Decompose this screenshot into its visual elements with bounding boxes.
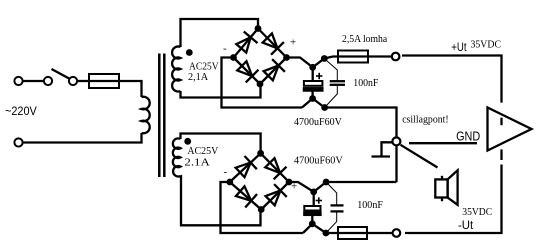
svg-text:-: - [224,166,228,178]
speaker terminal tick top [441,176,443,180]
wire [77,80,89,82]
capacitor C2 100nF leads [324,59,337,108]
capacitor C3 top plate [304,206,320,211]
svg-text:AC25V: AC25V [187,146,219,157]
transformer primary winding [142,97,150,134]
bridge rectifier B1 sides [234,29,287,85]
svg-text:GND: GND [456,128,480,143]
wire bridge2 minus to fuse bus [221,182,304,233]
diode D7 (L2 to B2) [234,184,257,207]
secondary winding 1 (top) [172,47,180,92]
capacitor C1 lead bottom [311,91,313,99]
wire [23,80,44,82]
transformer core [158,54,161,178]
junction dot bridge1 left [230,54,237,61]
svg-text:~220V: ~220V [5,106,37,118]
junction dot 100nF branch top [321,55,328,62]
diode D1 (L1 to T1) [234,31,257,54]
amp power rail dash below [500,149,502,160]
junction dot C1 bottom [309,95,316,102]
wire bottom to primary [23,133,142,143]
fuse F2 [338,51,368,63]
svg-text:2,5A lomha: 2,5A lomha [342,34,388,45]
junction dot bridge2 top [257,150,264,157]
wire secondary2 top to bridge2 AC top [181,134,261,154]
capacitor C3 bottom plate [304,213,320,215]
wire secondary2 bottom to bridge2 AC bottom [181,176,261,225]
capacitor C1 top plate [304,81,323,86]
capacitor C3 plus sign [316,197,322,203]
svg-text:4700uF60V: 4700uF60V [294,117,343,128]
bridge rectifier B2 sides [230,153,289,209]
diode D8 (B2 to R2) [264,184,287,207]
switch S1 blade [52,69,71,79]
diode D3 (L1 to B1) [235,59,258,82]
wire bridge2 plus to star [289,182,397,192]
wire to transformer primary [119,81,142,97]
svg-text:AC25V: AC25V [189,62,219,73]
input terminal circle top [14,77,22,85]
svg-text:+: + [291,181,297,193]
junction dot C3 top [310,189,317,196]
svg-text:-Ut: -Ut [458,218,474,232]
diode D5 (L2 to T2) [234,156,257,179]
svg-text:100nF: 100nF [353,78,379,89]
junction dot bus 100nF bottom [321,104,328,111]
svg-text:+Ut: +Ut [451,40,467,54]
capacitor C4 plates [331,204,344,206]
capacitor C3 lead bottom [311,215,313,224]
wire secondary1 bottom to bridge1 AC bottom [181,84,261,98]
terminal circle +Ut [392,53,400,61]
amp power rail dash inside [500,118,502,126]
wire secondary1 top to bridge1 AC top [181,19,259,47]
junction dot C1 top [309,64,316,71]
svg-text:35VDC: 35VDC [462,207,492,218]
wire fuse3 to -Ut terminal [367,232,393,234]
junction dot C3 bottom [309,220,316,227]
svg-text:2.1A: 2.1A [184,158,210,169]
capacitor C1 bottom plate [304,88,323,90]
star point vertical from circle to lower bus [395,146,397,182]
phase dot secondary 2 [184,138,191,145]
secondary winding 2 (bottom) [173,138,181,176]
capacitor C4 100nF leads [326,182,337,233]
svg-text:+: + [290,37,296,49]
speaker box [435,179,447,197]
wire +Ut rail [402,56,502,103]
junction dot bridge1 right [283,54,290,61]
phase dot secondary 1 [186,49,193,56]
fuse F1 [89,74,119,88]
svg-text:4700uF60V: 4700uF60V [294,156,343,167]
capacitor C1 plus sign [316,73,322,79]
wire bridge1 plus towards fuse [287,57,339,68]
svg-text:35VDC: 35VDC [471,39,502,50]
terminal circle -Ut [393,229,401,237]
wire star to speaker [401,145,438,168]
switch pole circle [44,77,52,85]
svg-text:100nF: 100nF [357,200,383,211]
junction dot bridge2 right [286,179,293,186]
junction dot bridge1 bottom [257,81,264,88]
capacitor C3 4700uF lead top [313,192,315,206]
speaker horn [448,170,458,205]
diode D6 (T2 to R2) [263,156,286,179]
junction dot bridge2 left [226,179,233,186]
switch pole circle right [69,77,77,85]
chassis ground symbol [382,142,393,156]
junction dot bus2 100nF bottom [323,230,330,237]
fuse F3 [338,227,367,239]
star point circle [392,137,400,145]
wire fuse to +Ut terminal [368,55,392,57]
GND wire [409,142,477,144]
amplifier U1 triangle [488,108,532,151]
wire -Ut rail [405,165,502,234]
diode D2 (T1 to R1) [261,32,284,55]
diode D4 (B1 to R1) [262,59,285,82]
junction dot 100nF branch bottom section [323,179,330,186]
wire bridge1 minus to star bus [222,58,303,108]
speaker terminal tick bottom [441,198,443,202]
wire bus V up to cap C1 bottom [302,99,397,138]
junction dot bridge2 bottom [258,206,265,213]
wire bus V up to cap C3 bottom [303,224,338,233]
junction dot bridge1 top [255,25,262,32]
svg-text:2,1A: 2,1A [188,72,209,83]
input terminal circle bottom [14,138,22,146]
svg-text:-: - [223,43,227,55]
capacitor C2 plates [330,80,345,82]
capacitor C1 4700uF lead top [312,67,314,81]
svg-text:csillagpont!: csillagpont! [402,115,449,126]
